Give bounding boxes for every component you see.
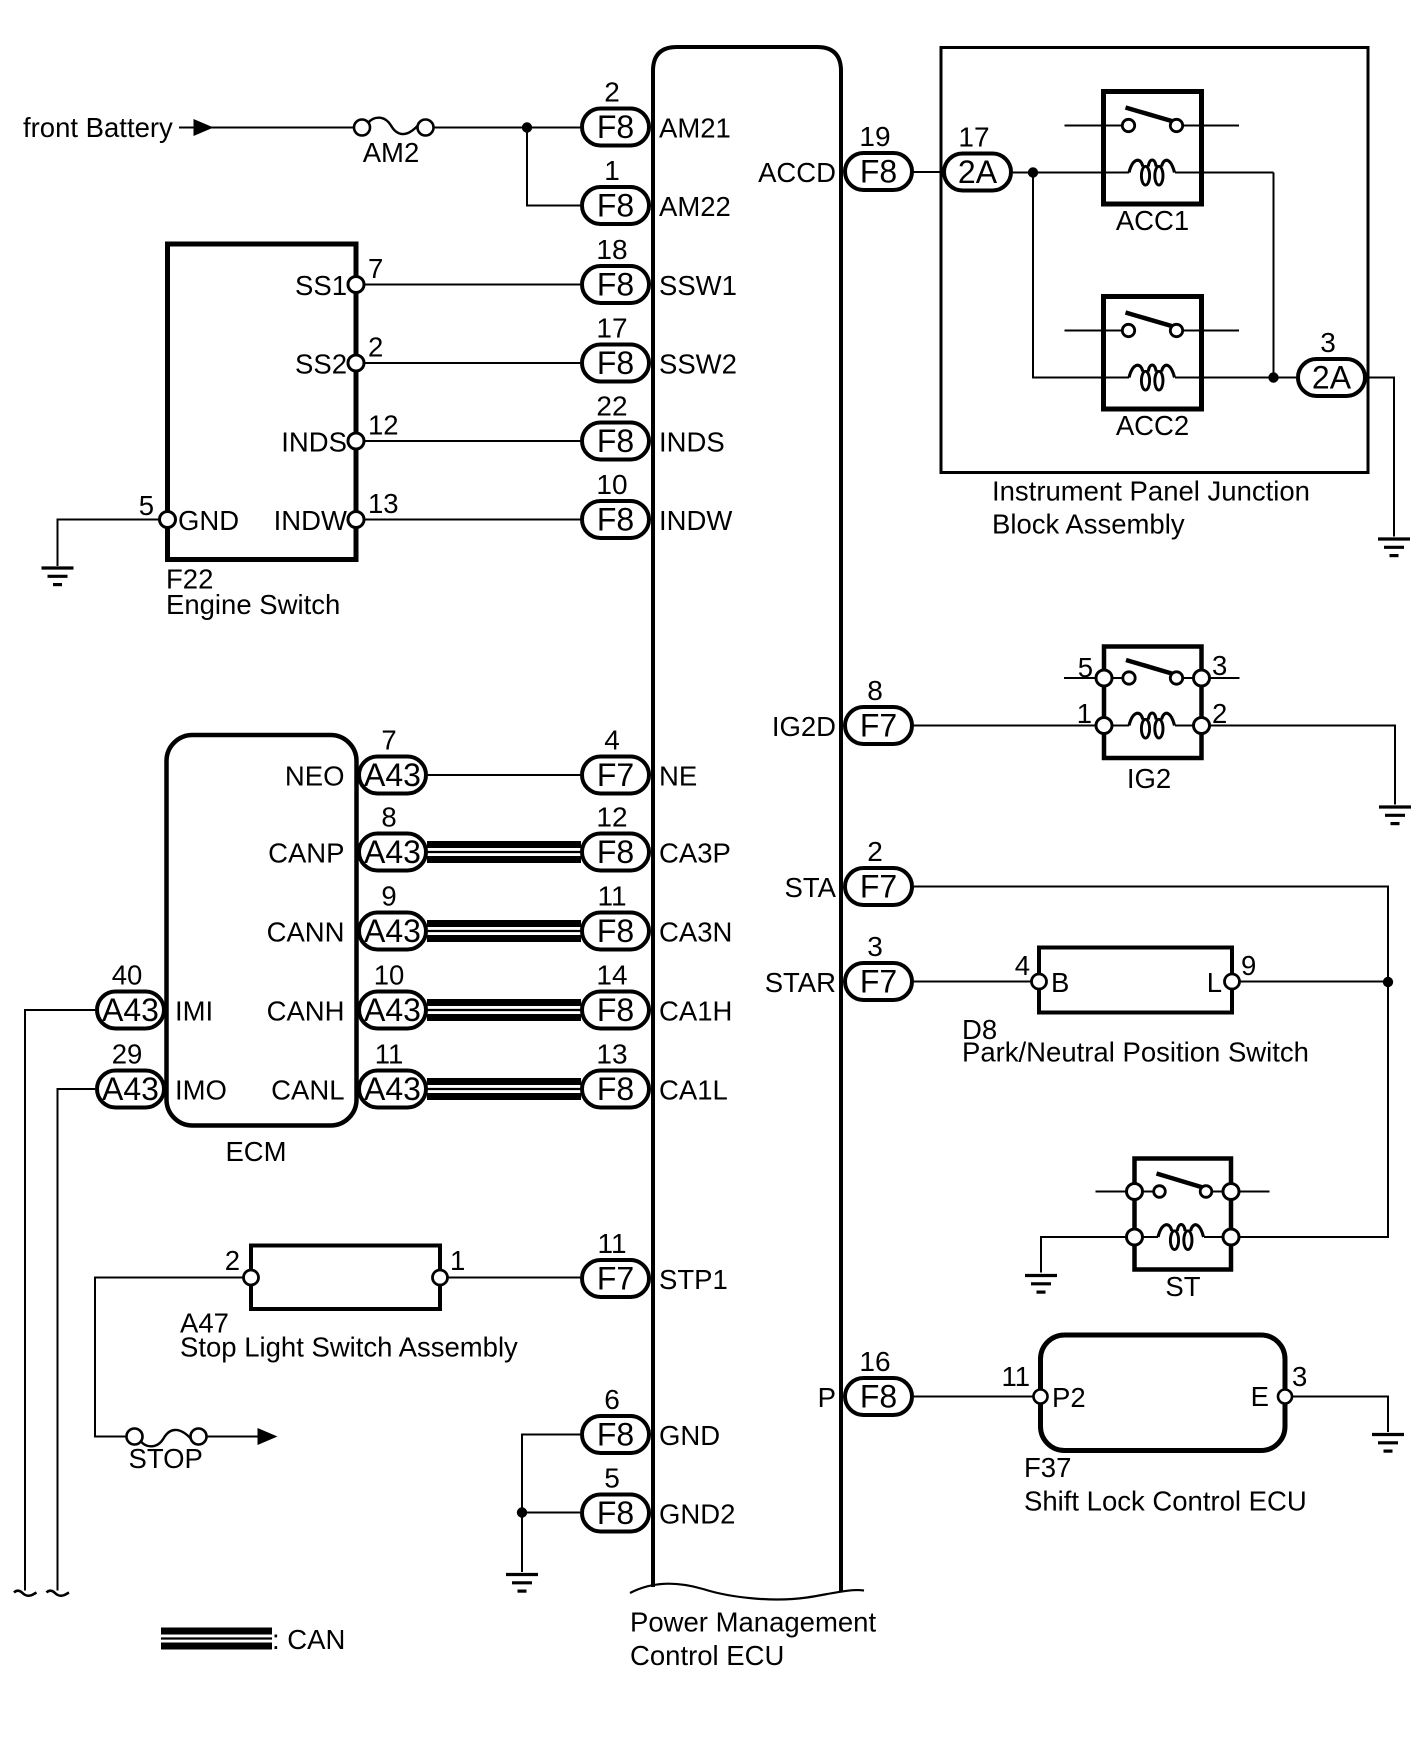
connector F8 pin 12 (CA3P) — [582, 802, 731, 871]
svg-text:INDW: INDW — [659, 505, 732, 536]
svg-text:STAR: STAR — [765, 967, 836, 998]
svg-text:Block Assembly: Block Assembly — [992, 509, 1185, 540]
power management control ECU body — [653, 47, 841, 1592]
relay ST coil edge pins — [1127, 1229, 1240, 1245]
svg-text:2: 2 — [1212, 698, 1227, 729]
label ACC1 — [1116, 205, 1189, 236]
label Power Management Control ECU — [630, 1607, 876, 1672]
wire IMO break symbol — [47, 1591, 70, 1596]
svg-text:11: 11 — [1001, 1361, 1030, 1392]
wire IG2D to IG2 pin 1 — [913, 725, 1096, 727]
label A47 Stop Light Switch Assembly — [180, 1308, 518, 1363]
svg-text:29: 29 — [112, 1039, 143, 1070]
F22 pin 12 (INDS) — [281, 410, 398, 458]
connector F8 pin 22 (INDS) — [582, 391, 725, 460]
svg-text:P: P — [818, 1382, 836, 1413]
ECM connector A43 pin 7 (NEO) — [285, 725, 426, 794]
wire ST coil to ground — [1041, 1237, 1127, 1273]
F22 pin 5 (GND) — [139, 490, 239, 536]
svg-text:SS2: SS2 — [295, 349, 347, 380]
svg-text:2: 2 — [225, 1245, 240, 1276]
svg-text:IG2D: IG2D — [772, 711, 836, 742]
CAN bus wire CANN-CA3N — [427, 924, 581, 939]
svg-text:2: 2 — [604, 77, 620, 108]
ECM connector A43 pin 11 (CANL) — [271, 1039, 426, 1108]
svg-text:INDS: INDS — [281, 427, 347, 458]
connector F8 pin 13 (CA1L) — [582, 1039, 728, 1108]
svg-text:F8: F8 — [597, 188, 634, 224]
fuse AM2 — [354, 118, 434, 136]
ECM connector A43 pin 10 (CANH) — [267, 960, 426, 1029]
wire STP1 to A47 pin 1 — [440, 1277, 580, 1279]
junction ACC2 out — [1268, 372, 1278, 382]
svg-text:F8: F8 — [597, 1417, 634, 1453]
ground F37 — [1372, 1435, 1404, 1452]
svg-text:ACC2: ACC2 — [1116, 410, 1189, 441]
relay ST switch stubs — [1096, 1191, 1270, 1193]
connector F8 pin 18 (SSW1) — [582, 234, 737, 303]
svg-text:ST: ST — [1165, 1271, 1200, 1302]
svg-text:IMO: IMO — [175, 1075, 227, 1106]
svg-text:IG2: IG2 — [1127, 763, 1171, 794]
relay IG2 pin 2 — [1194, 698, 1228, 734]
relay ACC1 box — [1104, 92, 1202, 205]
svg-text:CANP: CANP — [268, 838, 344, 869]
svg-text:11: 11 — [597, 1228, 626, 1259]
svg-text:19: 19 — [859, 121, 890, 152]
svg-text:STA: STA — [785, 872, 837, 903]
wire GND2 branch — [522, 1512, 580, 1514]
svg-text:3: 3 — [1292, 1361, 1307, 1392]
svg-text:2A: 2A — [1312, 360, 1352, 396]
svg-text:B: B — [1051, 967, 1069, 998]
svg-text:11: 11 — [597, 881, 626, 912]
relay IG2 switch stubs — [1064, 677, 1240, 679]
svg-text:L: L — [1207, 967, 1222, 998]
svg-text:CANN: CANN — [267, 917, 345, 948]
svg-text:8: 8 — [381, 802, 396, 833]
connector F8 pin 10 (INDW) — [582, 469, 732, 538]
svg-text:3: 3 — [867, 931, 883, 962]
ground F22 — [42, 568, 74, 585]
wire IMI break symbol — [14, 1591, 37, 1596]
svg-text:E: E — [1251, 1381, 1269, 1412]
svg-text:A43: A43 — [102, 1071, 159, 1107]
relay IG2 coil — [1129, 713, 1175, 738]
connector F8 pin 14 (CA1H) — [582, 960, 732, 1029]
relay ST coil wires — [1135, 1236, 1232, 1238]
svg-text:IMI: IMI — [175, 996, 213, 1027]
relay ACC1 coil — [1129, 160, 1175, 185]
connector 2A pin 17 — [944, 122, 1011, 191]
svg-text:2A: 2A — [958, 154, 998, 190]
svg-text:Park/Neutral Position Switch: Park/Neutral Position Switch — [962, 1037, 1309, 1068]
svg-text:AM21: AM21 — [659, 113, 731, 144]
svg-text:ACCD: ACCD — [758, 157, 836, 188]
svg-text:CA3N: CA3N — [659, 917, 732, 948]
svg-text:22: 22 — [596, 391, 627, 422]
svg-text:9: 9 — [381, 881, 396, 912]
svg-text:18: 18 — [596, 234, 627, 265]
label IG2 — [1127, 763, 1171, 794]
svg-text:SS1: SS1 — [295, 270, 347, 301]
junction battery branch — [522, 122, 532, 132]
svg-text:F8: F8 — [860, 1379, 897, 1415]
wire fuse AM2 to AM21 — [426, 127, 581, 129]
svg-text:F8: F8 — [597, 345, 634, 381]
svg-text:AM22: AM22 — [659, 191, 731, 222]
svg-text:F7: F7 — [860, 708, 897, 744]
svg-text:GND: GND — [659, 1420, 720, 1451]
wire P to F37 P2 — [913, 1396, 1034, 1398]
svg-text:6: 6 — [604, 1384, 620, 1415]
label ECM — [225, 1136, 286, 1167]
connector F8 pin 2 (AM21) — [582, 77, 731, 146]
wire GND to ground — [522, 1435, 580, 1573]
svg-text:13: 13 — [596, 1039, 627, 1070]
svg-text:F37: F37 — [1024, 1452, 1071, 1483]
svg-text:SSW1: SSW1 — [659, 270, 737, 301]
svg-text:CA3P: CA3P — [659, 838, 731, 869]
legend CAN bus line sample — [161, 1631, 272, 1646]
connector F8 pin 16 (P) — [818, 1346, 912, 1415]
svg-text:7: 7 — [368, 253, 383, 284]
wire IMI stub — [25, 1010, 95, 1591]
svg-text:STP1: STP1 — [659, 1264, 728, 1295]
wire ACC2 coil out to 2A-3 — [1175, 377, 1296, 379]
svg-text:A43: A43 — [102, 992, 159, 1028]
wire F22 GND to ground — [58, 520, 168, 567]
wire INDS to F8-22 — [356, 440, 580, 442]
svg-text:ECM: ECM — [225, 1136, 286, 1167]
stop light switch A47 box — [251, 1246, 440, 1310]
wire F37 E to ground — [1292, 1397, 1388, 1433]
svg-text:Control ECU: Control ECU — [630, 1640, 784, 1671]
svg-text:16: 16 — [859, 1346, 890, 1377]
ground IG2 — [1379, 807, 1411, 824]
svg-text:NEO: NEO — [285, 761, 345, 792]
F37 pin 3 (E) — [1251, 1361, 1308, 1412]
ECM connector A43 pin 9 (CANN) — [267, 881, 426, 950]
A47 pin 2 — [225, 1245, 259, 1285]
svg-text:F7: F7 — [860, 869, 897, 905]
CAN bus wire CANH-CA1H — [427, 1003, 581, 1018]
label Instrument Panel Junction Block Assembly — [992, 476, 1310, 540]
svg-text:F8: F8 — [597, 109, 634, 145]
svg-text:F8: F8 — [597, 913, 634, 949]
svg-text:40: 40 — [112, 960, 143, 991]
svg-text:17: 17 — [958, 122, 989, 153]
svg-text:14: 14 — [596, 960, 627, 991]
instrument panel junction block box — [941, 48, 1368, 473]
relay ST switch — [1135, 1174, 1232, 1198]
connector F8 pin 17 (SSW2) — [582, 313, 737, 382]
F22 pin 13 (INDW) — [274, 488, 399, 536]
arrow STOP feed — [258, 1428, 278, 1445]
label D8 Park/Neutral Position Switch — [962, 1014, 1309, 1068]
svg-text:4: 4 — [1015, 950, 1030, 981]
D8 pin 4 (B) — [1015, 950, 1070, 998]
svg-text:1: 1 — [604, 155, 620, 186]
svg-text:1: 1 — [1077, 698, 1092, 729]
svg-text:1: 1 — [450, 1245, 465, 1276]
relay IG2 coil wires — [1104, 725, 1194, 727]
connector F8 pin 11 (CA3N) — [582, 881, 732, 950]
svg-text:P2: P2 — [1052, 1382, 1086, 1413]
svg-text:F8: F8 — [597, 1495, 634, 1531]
svg-text:Engine Switch: Engine Switch — [166, 589, 340, 620]
junction ACC feed — [1028, 167, 1038, 177]
svg-text:front Battery: front Battery — [23, 112, 173, 143]
wire ACC1 coil out down — [1273, 173, 1275, 378]
svg-text:GND2: GND2 — [659, 1499, 735, 1530]
battery feed arrow — [179, 119, 214, 136]
svg-text:10: 10 — [596, 469, 627, 500]
svg-text:F8: F8 — [597, 267, 634, 303]
connector F7 pin 8 (IG2D) — [772, 675, 912, 744]
svg-text:CA1H: CA1H — [659, 996, 732, 1027]
svg-text:F7: F7 — [860, 964, 897, 1000]
connector F7 pin 3 (STAR) — [765, 931, 912, 1000]
svg-text:3: 3 — [1212, 650, 1227, 681]
svg-text:AM2: AM2 — [363, 137, 420, 168]
wire 2A-3 to ground — [1367, 378, 1394, 537]
svg-text:9: 9 — [1241, 950, 1256, 981]
svg-text:17: 17 — [596, 313, 627, 344]
svg-text:A43: A43 — [364, 834, 421, 870]
D8 pin 9 (L) — [1207, 950, 1257, 998]
svg-text:5: 5 — [604, 1463, 620, 1494]
relay IG2 pin 5 — [1078, 652, 1112, 686]
svg-text:F8: F8 — [597, 502, 634, 538]
node front Battery label — [23, 112, 173, 143]
relay ST coil — [1158, 1225, 1204, 1250]
ground junction block — [1378, 539, 1410, 556]
svg-text:Shift Lock Control ECU: Shift Lock Control ECU — [1024, 1486, 1307, 1517]
label F37 Shift Lock Control ECU — [1024, 1452, 1307, 1517]
svg-text:7: 7 — [381, 725, 396, 756]
wire battery to fuse AM2 — [210, 127, 362, 129]
relay IG2 pin 3 — [1194, 650, 1228, 686]
junction GND/GND2 — [517, 1507, 527, 1517]
svg-text:F7: F7 — [597, 1261, 634, 1297]
svg-text:4: 4 — [604, 725, 620, 756]
relay IG2 pin 1 — [1077, 698, 1112, 734]
svg-text:INDW: INDW — [274, 505, 347, 536]
wire junction down to ACC2 coil — [1033, 173, 1129, 378]
svg-text:Power Management: Power Management — [630, 1607, 876, 1638]
relay ST box — [1135, 1159, 1232, 1270]
svg-text:GND: GND — [178, 505, 239, 536]
engine switch F22 box — [168, 244, 357, 560]
label F22 Engine Switch — [166, 564, 340, 621]
svg-text:13: 13 — [368, 488, 399, 519]
wire STOP fuse to arrow — [199, 1436, 259, 1438]
connector F8 pin 6 (GND) — [582, 1384, 720, 1453]
svg-text:CA1L: CA1L — [659, 1075, 728, 1106]
relay ACC2 box — [1104, 297, 1202, 410]
wire 2A-17 to ACC1 coil — [1013, 172, 1129, 174]
ground GND/GND2 — [506, 1575, 538, 1592]
svg-text:10: 10 — [374, 960, 405, 991]
wire branch to AM22 — [527, 128, 580, 206]
ECM connector A43 pin 40 (IMI) — [97, 960, 213, 1029]
svg-text:12: 12 — [368, 410, 399, 441]
relay ACC1 switch — [1104, 108, 1202, 132]
connector F7 pin 2 (STA) — [785, 836, 912, 905]
connector F7 pin 4 (NE) — [582, 725, 697, 794]
fuse STOP — [127, 1429, 207, 1447]
wire ACCD to 2A-17 — [913, 171, 942, 173]
junction starter net — [1383, 977, 1393, 987]
connector F8 pin 19 (ACCD) — [758, 121, 912, 190]
svg-text:5: 5 — [139, 490, 154, 521]
svg-text:8: 8 — [867, 675, 883, 706]
svg-text:F8: F8 — [597, 423, 634, 459]
svg-text:INDS: INDS — [659, 427, 725, 458]
svg-text:STOP: STOP — [129, 1443, 203, 1474]
wire STAR to D8 pin B — [913, 981, 1032, 983]
relay ACC1 switch stubs — [1065, 125, 1240, 127]
svg-text:2: 2 — [867, 836, 883, 867]
fuse STOP value label — [129, 1443, 203, 1474]
F22 pin 7 (SS1) — [295, 253, 383, 301]
F22 pin 2 (SS2) — [295, 332, 383, 380]
F37 pin 11 (P2) — [1001, 1361, 1085, 1413]
wire IG2 pin 2 to ground — [1210, 726, 1396, 805]
connector F8 pin 5 (GND2) — [582, 1463, 735, 1532]
svg-text:SSW2: SSW2 — [659, 349, 737, 380]
wire INDW to F8-10 — [356, 519, 580, 521]
svg-text:A43: A43 — [364, 992, 421, 1028]
svg-text:F8: F8 — [860, 154, 897, 190]
relay IG2 switch — [1104, 660, 1202, 684]
connector 2A pin 3 — [1298, 327, 1365, 396]
ECU body wavy break bottom edge — [630, 1584, 864, 1600]
wire A47 pin 2 to STOP fuse — [95, 1278, 251, 1437]
svg-text:CANL: CANL — [271, 1075, 344, 1106]
CAN bus wire CANL-CA1L — [427, 1082, 581, 1097]
svg-text:: CAN: : CAN — [272, 1624, 345, 1655]
ECM connector A43 pin 8 (CANP) — [268, 802, 426, 871]
svg-text:12: 12 — [596, 802, 627, 833]
relay ACC2 coil — [1129, 365, 1175, 390]
ground ST — [1025, 1276, 1057, 1293]
connector F8 pin 1 (AM22) — [582, 155, 731, 224]
svg-text:F7: F7 — [597, 757, 634, 793]
fuse AM2 value label — [363, 137, 420, 168]
svg-text:A43: A43 — [364, 757, 421, 793]
wire IMO stub — [58, 1089, 96, 1591]
relay IG2 box — [1104, 647, 1202, 759]
svg-text:3: 3 — [1320, 327, 1336, 358]
svg-text:Instrument Panel Junction: Instrument Panel Junction — [992, 476, 1310, 507]
svg-text:CANH: CANH — [267, 996, 345, 1027]
svg-text:2: 2 — [368, 332, 383, 363]
wire SS1 to F8-18 — [356, 284, 580, 286]
svg-text:11: 11 — [375, 1039, 404, 1070]
svg-text:F8: F8 — [597, 834, 634, 870]
relay ST switch edge pins — [1127, 1184, 1240, 1200]
park/neutral position switch D8 box — [1039, 948, 1232, 1013]
wire STA down to starter net — [913, 887, 1388, 983]
svg-text:F8: F8 — [597, 1071, 634, 1107]
svg-text:ACC1: ACC1 — [1116, 205, 1189, 236]
A47 pin 1 — [433, 1245, 466, 1285]
label ST — [1165, 1271, 1200, 1302]
wire SS2 to F8-17 — [356, 362, 580, 364]
legend CAN label — [272, 1624, 345, 1655]
relay ACC2 switch — [1104, 313, 1202, 337]
svg-text:Stop Light Switch Assembly: Stop Light Switch Assembly — [180, 1332, 518, 1363]
ECM connector A43 pin 29 (IMO) — [97, 1039, 227, 1108]
svg-text:5: 5 — [1078, 652, 1093, 683]
label ACC2 — [1116, 410, 1189, 441]
wire NEO to NE — [428, 774, 580, 776]
connector F7 pin 11 (STP1) — [582, 1228, 728, 1297]
wire ACC1 coil out — [1175, 172, 1274, 174]
relay ACC2 switch stubs — [1065, 330, 1240, 332]
svg-text:A43: A43 — [364, 913, 421, 949]
svg-text:A43: A43 — [364, 1071, 421, 1107]
wire D8 L to junction — [1240, 981, 1389, 983]
svg-text:F8: F8 — [597, 992, 634, 1028]
shift lock control ECU F37 box — [1041, 1335, 1286, 1451]
wire junction down to ST coil — [1239, 982, 1388, 1237]
svg-text:NE: NE — [659, 761, 697, 792]
CAN bus wire CANP-CA3P — [427, 845, 581, 860]
ECM box — [167, 735, 357, 1126]
